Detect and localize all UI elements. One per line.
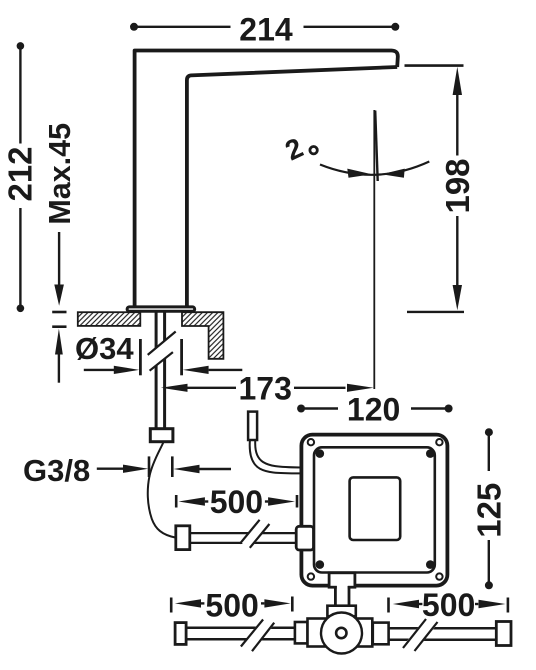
svg-text:500: 500 <box>205 587 258 623</box>
svg-text:173: 173 <box>239 371 292 407</box>
svg-text:120: 120 <box>347 391 400 427</box>
svg-text:198: 198 <box>439 158 476 213</box>
svg-text:125: 125 <box>471 483 508 538</box>
svg-text:Ø34: Ø34 <box>75 331 134 366</box>
svg-text:212: 212 <box>2 146 39 201</box>
svg-text:500: 500 <box>210 484 263 520</box>
svg-text:Max.45: Max.45 <box>43 123 77 225</box>
svg-text:500: 500 <box>422 587 475 623</box>
svg-text:214: 214 <box>239 12 293 48</box>
svg-text:G3/8: G3/8 <box>23 453 90 488</box>
